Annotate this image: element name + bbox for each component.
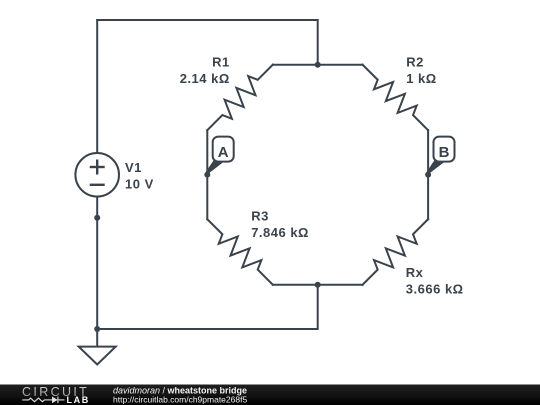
svg-text:B: B: [439, 144, 450, 161]
wire top rail from V1 to bridge top: [97, 20, 318, 65]
wire V1 top lead: [96, 20, 98, 153]
node B flag pointer: [427, 160, 444, 174]
junction top node: [315, 62, 321, 68]
svg-text:http://circuitlab.com/ch9pmate: http://circuitlab.com/ch9pmate268f5: [113, 395, 247, 405]
node B flag: [434, 137, 455, 162]
V1 plus sign: [90, 160, 105, 185]
wire V1 bottom lead down to ground: [96, 197, 98, 347]
svg-text:R3: R3: [251, 209, 269, 224]
svg-text:3.666 kΩ: 3.666 kΩ: [406, 282, 464, 297]
node A flag: [213, 137, 234, 162]
svg-text:R2: R2: [406, 55, 424, 70]
svg-text:LAB: LAB: [67, 395, 90, 405]
logo resistor-diode glyph: [22, 397, 64, 404]
resistor R1: [207, 65, 272, 131]
junction below V1: [94, 215, 100, 221]
svg-text:2.14 kΩ: 2.14 kΩ: [180, 71, 230, 86]
wire node A vertical stub: [206, 130, 208, 219]
svg-text:R1: R1: [212, 55, 230, 70]
resistor R2: [363, 65, 429, 131]
junction bottom-left: [94, 326, 100, 332]
wire bottom rail from ground to bridge bottom: [97, 285, 318, 329]
resistor Rx: [363, 219, 429, 285]
junction node B: [425, 172, 431, 178]
svg-text:10 V: 10 V: [125, 176, 154, 191]
svg-text:1 kΩ: 1 kΩ: [406, 71, 437, 86]
ground: [79, 347, 116, 365]
wire bridge top stub: [273, 64, 363, 66]
svg-text:V1: V1: [125, 160, 142, 175]
logo diode triangle: [52, 397, 58, 404]
wire node B vertical stub: [427, 130, 429, 219]
node A flag pointer: [206, 160, 223, 174]
svg-text:A: A: [218, 144, 229, 161]
resistor R3: [207, 219, 272, 285]
junction bottom node: [315, 282, 321, 288]
wire bridge bottom stub: [273, 284, 363, 286]
junction node A: [204, 172, 210, 178]
svg-text:7.846 kΩ: 7.846 kΩ: [251, 225, 309, 240]
svg-text:Rx: Rx: [406, 265, 424, 280]
V1 minus sign: [90, 184, 105, 186]
voltage source V1 body: [75, 153, 119, 197]
